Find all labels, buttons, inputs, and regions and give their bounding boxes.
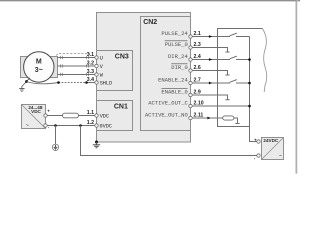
svg-text:+: + bbox=[47, 108, 50, 113]
svg-text:CN2: CN2 bbox=[143, 19, 157, 26]
svg-text:2.10: 2.10 bbox=[194, 100, 204, 106]
svg-text:ACTIVE_OUT_C: ACTIVE_OUT_C bbox=[148, 99, 188, 106]
svg-text:2.6: 2.6 bbox=[194, 65, 201, 71]
svg-text:PULSE_0: PULSE_0 bbox=[165, 41, 188, 48]
svg-text:CN3: CN3 bbox=[115, 53, 129, 60]
svg-text:PULSE_24: PULSE_24 bbox=[161, 30, 188, 37]
svg-text:0VDC: 0VDC bbox=[100, 123, 112, 129]
svg-text:3.3: 3.3 bbox=[87, 69, 94, 75]
svg-text:U: U bbox=[100, 55, 103, 61]
svg-text:SHLD: SHLD bbox=[100, 80, 112, 86]
svg-text:VDC: VDC bbox=[31, 109, 41, 114]
svg-text:2.3: 2.3 bbox=[194, 42, 201, 48]
svg-text:1.1: 1.1 bbox=[87, 110, 94, 116]
svg-text:DIR_24: DIR_24 bbox=[168, 53, 189, 60]
svg-text:VDC: VDC bbox=[100, 113, 109, 119]
svg-text:3.4: 3.4 bbox=[87, 77, 94, 83]
svg-text:1.2: 1.2 bbox=[87, 120, 94, 126]
svg-text:3~: 3~ bbox=[35, 67, 43, 74]
svg-text:2.11: 2.11 bbox=[194, 112, 204, 118]
svg-text:3.1: 3.1 bbox=[87, 52, 94, 58]
svg-text:2.4: 2.4 bbox=[194, 54, 201, 60]
svg-text:ENABLE_0: ENABLE_0 bbox=[161, 88, 187, 95]
svg-text:~: ~ bbox=[279, 153, 282, 159]
svg-text:2.9: 2.9 bbox=[194, 89, 201, 95]
svg-text:DIR_0: DIR_0 bbox=[171, 64, 188, 71]
svg-text:24VDC: 24VDC bbox=[263, 138, 278, 143]
svg-text:CN1: CN1 bbox=[114, 103, 128, 110]
svg-text:2.1: 2.1 bbox=[194, 31, 201, 37]
svg-text:ACTIVE_OUT_NO: ACTIVE_OUT_NO bbox=[145, 111, 189, 118]
svg-text:ENABLE_24: ENABLE_24 bbox=[158, 76, 188, 83]
svg-text:M: M bbox=[36, 58, 42, 65]
svg-text:2.7: 2.7 bbox=[194, 77, 201, 83]
svg-text:3.2: 3.2 bbox=[87, 60, 94, 66]
